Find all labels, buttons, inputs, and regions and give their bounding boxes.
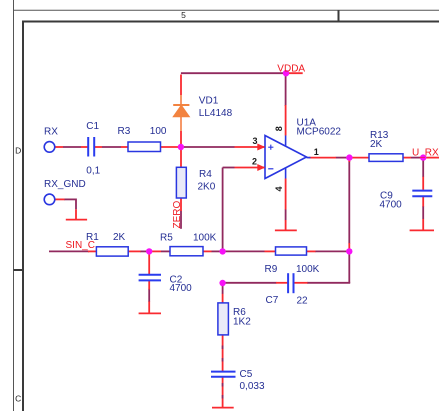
op-amp plus sign [268,145,273,150]
pin VDDA tail [286,72,303,74]
svg-text:R9: R9 [265,264,278,275]
svg-text:ZERO: ZERO [172,201,183,229]
svg-text:2K: 2K [370,139,383,150]
pin R5 right [203,250,212,252]
wire node to R9 [223,250,265,252]
ground pin4 bar [275,229,297,231]
pin R9 right [307,250,316,252]
pin8 red part [285,105,287,136]
pin C5 bottom [222,377,224,408]
svg-text:R1: R1 [86,232,99,243]
junction opamp output node [346,154,352,160]
pin output node upper [348,158,350,162]
svg-text:LL4148: LL4148 [199,108,233,119]
pin C9 top [422,177,424,190]
svg-text:1K2: 1K2 [233,317,251,328]
svg-text:RX: RX [44,127,58,138]
wire top VDDA rail [181,72,286,74]
svg-text:0,033: 0,033 [240,381,265,392]
pin RX_GND ground lead [75,209,77,219]
pin R4 top [180,147,182,168]
svg-text:D: D [15,146,21,156]
pin R3 right [161,146,179,148]
op-amp pin4 blue stub [285,168,287,179]
svg-text:2: 2 [252,157,257,167]
port RX [44,142,55,153]
svg-text:VDDA: VDDA [277,64,305,75]
pin node to R5 red [150,250,161,252]
pin C9 bottom [422,197,424,207]
svg-text:5: 5 [181,10,186,20]
wire ZERO stub [180,211,182,229]
wire R13 to U_RX node [411,157,422,159]
wire pin2 vertical to R5 node [222,168,224,251]
svg-text:R5: R5 [160,233,173,244]
wire C1 to R3 mid [102,146,121,148]
resistor R5 body [170,247,203,256]
wire R9 to output node [315,250,349,252]
resistor R13 body [369,154,403,162]
pin R13 left [352,157,369,159]
wire node to R5 [161,250,170,252]
wire pin2 horizontal [223,167,235,169]
arrow into pin3 [257,144,265,151]
op-amp minus sign [268,168,273,170]
svg-text:2K0: 2K0 [198,182,216,193]
pin C7 right [294,282,308,284]
pin C1 right [94,146,102,148]
svg-text:22: 22 [297,296,309,307]
svg-text:4: 4 [274,186,284,191]
pin U_RX tail [423,157,439,159]
pin output node lower red [348,243,350,249]
pin R4 bottom [180,198,182,211]
pin C2 top [148,253,150,275]
wire C7 right row [307,282,350,284]
svg-text:1: 1 [314,147,319,157]
capacitor C1 plates [88,137,94,157]
resistor R3 body [128,142,161,152]
junction R3/R4/VD1 node [178,144,184,150]
wire to pin3 red part [235,146,265,148]
svg-text:C5: C5 [240,369,253,380]
pin SIN_C into R1 [88,250,96,252]
wire pin8 upper [285,73,287,106]
svg-text:RX_GND: RX_GND [44,179,86,190]
resistor R4 body [176,167,186,198]
svg-text:4700: 4700 [380,200,403,211]
op-amp pin8 blue stub [285,136,287,147]
junction U_RX node [420,154,426,160]
capacitor C9 plates [412,191,432,197]
pin RX_GND port [55,198,65,200]
junction R5/feedback node [219,248,225,254]
wire output node to C7 corner [348,253,350,283]
svg-text:U_RX: U_RX [412,148,439,159]
diode VD1 [173,95,189,131]
pin C2 ground lead [148,302,150,314]
border column tick [338,10,340,21]
wire R5 to node [211,250,221,252]
resistor R6 body [218,303,229,335]
wire C7 left row [223,282,277,284]
arrow into pin2 [257,164,265,171]
ground C2 bar [139,312,161,314]
svg-text:C7: C7 [266,295,279,306]
svg-text:4700: 4700 [170,283,193,294]
pin C7 left [276,282,288,284]
svg-text:100K: 100K [193,233,217,244]
wire R1 to node [140,250,147,252]
wire grid dots on R6-C5 run [222,346,224,399]
ground RX_GND bar [66,219,87,221]
svg-text:100K: 100K [296,264,320,275]
svg-text:2K: 2K [113,232,126,243]
port RX_GND [44,194,55,205]
pin output red [309,157,337,159]
ground C9 bar [410,229,434,231]
junction R9/output node [346,248,352,254]
pin4 red upper [285,179,287,210]
junction VDDA node [283,70,289,76]
capacitor C2 plates [139,275,161,281]
wire RX to C1 mid [63,146,81,148]
pin C2 bottom [148,281,150,290]
ground C5 bar [212,407,234,409]
resistor R9 body [276,247,307,255]
svg-text:R3: R3 [118,126,131,137]
svg-text:100: 100 [150,126,167,137]
svg-text:3: 3 [252,136,257,146]
pin R6 bottom [222,335,224,372]
pin C9 ground lead [422,219,424,231]
svg-text:MCP6022: MCP6022 [297,127,342,138]
pin C1 left [81,146,88,148]
wire junction to pin3 mid [183,146,235,148]
pin4 ground lead [285,220,287,230]
svg-text:VD1: VD1 [199,96,219,107]
svg-text:C: C [15,394,21,404]
svg-text:R4: R4 [199,169,212,180]
border row tick [14,269,24,271]
svg-text:C1: C1 [86,121,99,132]
pin R3 left [121,146,128,148]
junction R1/C2 node [146,248,152,254]
wire C9 lower mid [422,206,424,219]
wire SIN_C lead [49,250,89,252]
pin R13 right [403,157,411,159]
svg-text:0,1: 0,1 [86,166,100,177]
junction C7/R6 node [219,280,225,286]
capacitor C5 plates [211,372,236,377]
pin diode branch [180,75,182,147]
pin RX port [55,146,63,148]
resistor R1 body [96,247,128,256]
pin R9 left [265,250,276,252]
wire RX_GND horizontal [64,198,76,200]
wire to pin2 red part [235,167,265,169]
wire output vertical [348,161,350,244]
op-amp U1A triangle [265,136,307,179]
wire C9 upper [422,159,424,177]
capacitor C7 plates [288,273,293,293]
wire pin4 mid [285,209,287,220]
wire opamp output mid [336,157,347,159]
svg-text:8: 8 [274,126,284,131]
wire RX_GND vertical [75,199,77,210]
wire node to R6 upper [222,283,224,294]
wire C2 mid [148,289,150,302]
pin R6 top [222,294,224,303]
op-amp output blue stub [307,157,311,159]
pin R1 right [128,250,140,252]
